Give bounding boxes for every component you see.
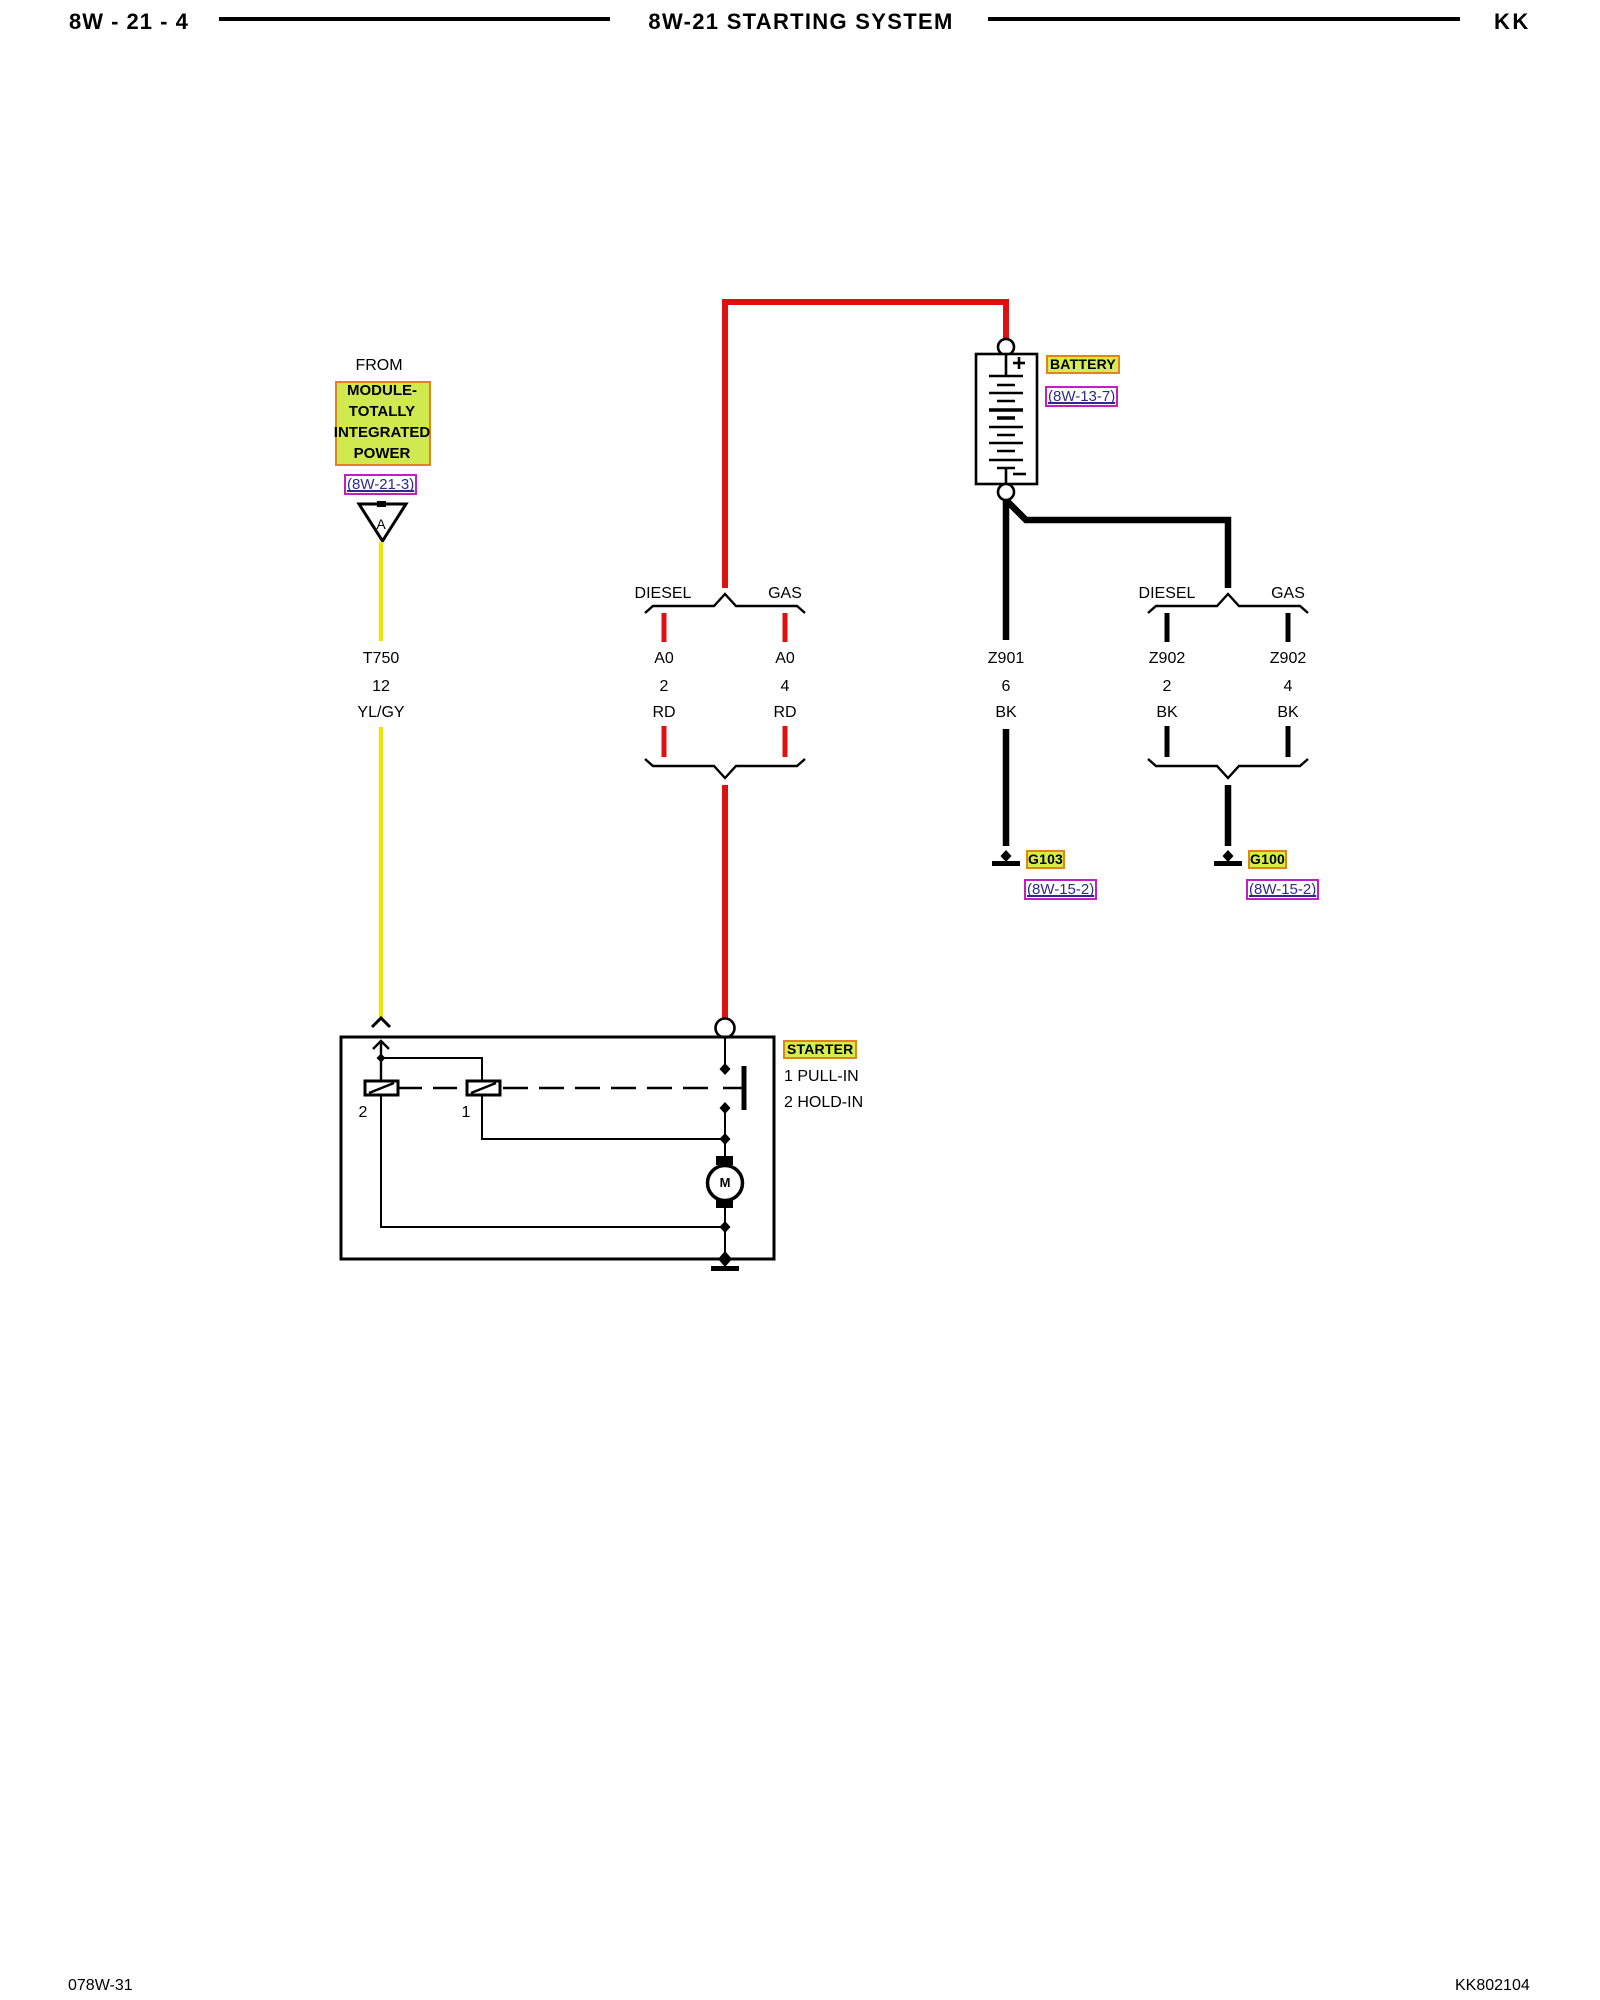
- wire contact to motor: [724, 1110, 726, 1156]
- net label Z901: [988, 651, 1024, 667]
- net label Z902 gas: [1270, 651, 1306, 667]
- ground label G100: [1248, 850, 1287, 869]
- wire yellow T750 lower segment: [379, 727, 383, 1017]
- link 8W-15-2 left: [1024, 879, 1097, 900]
- wire black splice stub Z902 2 BK (diesel): [1165, 613, 1170, 642]
- dashed mechanical linkage: [398, 1087, 744, 1089]
- link 8W-13-7: [1045, 386, 1118, 407]
- branch label DIESEL center: [635, 586, 692, 602]
- module TIPM text line 2: [349, 404, 415, 419]
- pin label 2 diesel: [660, 679, 669, 695]
- brace lower right rejoin: [1148, 759, 1308, 778]
- module TIPM text line 1: [347, 383, 417, 398]
- color label YL/GY: [357, 705, 404, 721]
- wire black splice stub Z902 4 BK (gas): [1286, 613, 1291, 642]
- module TIPM text line 4: [354, 446, 411, 461]
- brace upper center diesel/gas: [645, 594, 805, 613]
- contact fixed terminal upper: [720, 1063, 731, 1075]
- header KK: [1494, 9, 1531, 35]
- motor letter M: [720, 1176, 731, 1189]
- branch label GAS center: [768, 586, 802, 602]
- branch label DIESEL right: [1139, 586, 1196, 602]
- battery minus sign: [1013, 473, 1026, 476]
- link 8W-21-3: [344, 474, 417, 495]
- wire red splice stub lower diesel: [662, 726, 667, 757]
- color label RD gas: [773, 705, 796, 721]
- brace lower center rejoin: [645, 759, 805, 778]
- wire red battery feed from starter to battery +: [725, 302, 1006, 588]
- wire black Z901 lower segment to G103: [1003, 729, 1010, 846]
- chevron wire inside starter with stem: [373, 1041, 389, 1081]
- motor M1: [708, 1166, 743, 1201]
- wire black splice stub lower diesel: [1165, 726, 1170, 757]
- wire black battery negative to Z902 branch: [1006, 500, 1228, 588]
- module TIPM box: [335, 381, 431, 466]
- wire battery terminal into contact: [724, 1038, 726, 1065]
- header rule right: [988, 17, 1460, 21]
- module TIPM text line 3: [334, 425, 430, 440]
- wire motor to ground: [724, 1208, 726, 1259]
- wire red splice stub lower gas: [783, 726, 788, 757]
- net label A0 diesel: [654, 651, 674, 667]
- wire black Z902 lower segment to G100: [1225, 785, 1232, 846]
- pin label 4 gas: [781, 679, 790, 695]
- wire red splice stub A0 2 RD (diesel): [662, 613, 667, 642]
- battery B1: [976, 354, 1037, 484]
- starter box: [341, 1037, 774, 1259]
- junction node starter case ground: [718, 1251, 732, 1267]
- function label 1 PULL-IN: [784, 1069, 859, 1085]
- pin label 2 hold-in coil: [359, 1105, 368, 1121]
- battery plus sign: [1013, 357, 1025, 369]
- connector A triangle from TIPM: [359, 501, 406, 541]
- wire red to starter terminal: [722, 785, 728, 1018]
- motor brush upper: [716, 1156, 733, 1165]
- motor brush lower: [716, 1199, 733, 1208]
- chevron wire entering starter: [372, 1018, 390, 1027]
- ground symbol G103: [992, 850, 1020, 866]
- component label BATTERY: [1046, 355, 1120, 374]
- junction node pin 2 branch: [377, 1054, 386, 1063]
- battery terminal circle positive: [998, 339, 1014, 355]
- node label FROM: [355, 358, 402, 374]
- color label BK Z901: [995, 705, 1016, 721]
- contact fixed terminal lower: [720, 1102, 731, 1114]
- color label RD diesel: [652, 705, 675, 721]
- hold-in coil 2: [365, 1081, 398, 1095]
- header rule left: [219, 17, 610, 21]
- color label BK gas: [1277, 705, 1298, 721]
- pull-in coil 1: [467, 1081, 500, 1095]
- footer drawing number: [1455, 1977, 1530, 1995]
- brace upper right diesel/gas: [1148, 594, 1308, 613]
- branch label GAS right: [1271, 586, 1305, 602]
- footer sheet number: [68, 1977, 133, 1995]
- header page number 8W-21-4: [69, 9, 189, 35]
- junction node coil 2 / motor ground: [720, 1221, 731, 1233]
- pin label 2 diesel right: [1163, 679, 1172, 695]
- wire red splice stub A0 4 RD (gas): [783, 613, 788, 642]
- net label T750: [363, 651, 399, 667]
- component label STARTER: [783, 1040, 857, 1059]
- junction node coil 1 / motor: [720, 1133, 731, 1145]
- wire yellow T750 upper segment: [379, 542, 383, 641]
- ground symbol starter case: [711, 1266, 739, 1271]
- pin label 1 pull-in coil: [462, 1105, 471, 1121]
- net label A0 gas: [775, 651, 795, 667]
- wire coil 1 return: [482, 1095, 725, 1139]
- wire black battery negative Z901: [1003, 500, 1010, 640]
- function label 2 HOLD-IN: [784, 1095, 863, 1111]
- link 8W-15-2 right: [1246, 879, 1319, 900]
- battery terminal circle negative: [998, 484, 1014, 500]
- wire coil 2 return: [381, 1095, 725, 1227]
- contact bar solenoid switch: [742, 1066, 747, 1110]
- net label Z902 diesel: [1149, 651, 1185, 667]
- starter terminal connector circle: [716, 1019, 735, 1038]
- header title: [648, 9, 953, 35]
- pin label 6: [1002, 679, 1011, 695]
- ground symbol G100: [1214, 850, 1242, 866]
- pin label 12: [372, 679, 390, 695]
- wire black splice stub lower gas: [1286, 726, 1291, 757]
- connector label A: [376, 517, 385, 531]
- ground label G103: [1026, 850, 1065, 869]
- wire to pull-in coil 1: [381, 1058, 482, 1081]
- pin label 4 gas right: [1284, 679, 1293, 695]
- color label BK diesel: [1156, 705, 1177, 721]
